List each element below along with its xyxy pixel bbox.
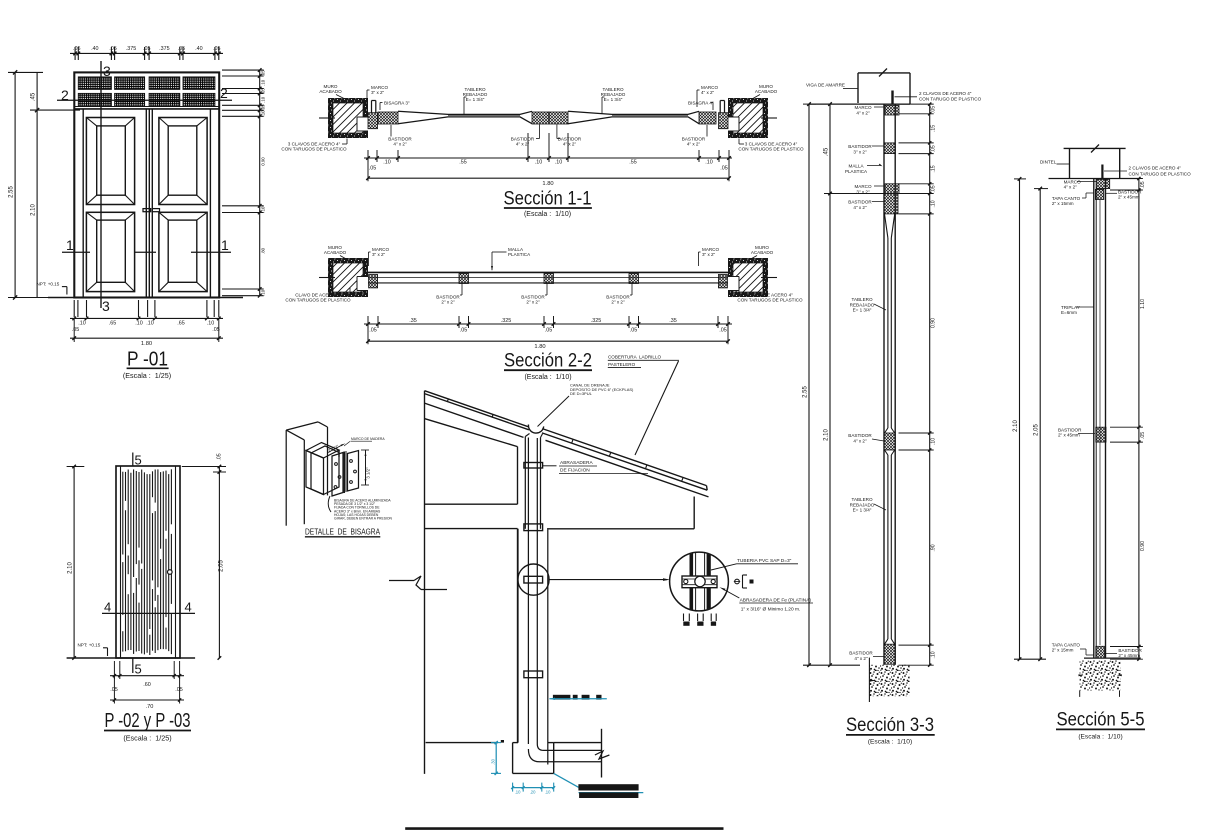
svg-text:.20: .20 [530,790,536,795]
svg-text:BASTIDOR: BASTIDOR [848,144,872,149]
svg-text:P -02 y P -03: P -02 y P -03 [105,710,191,732]
svg-text:3: 3 [103,63,111,79]
svg-text:PLASTICA: PLASTICA [845,169,868,174]
svg-text:.05: .05 [260,104,265,111]
svg-text:.45: .45 [31,92,37,101]
svg-text:.80: .80 [260,247,265,254]
svg-text:1.80: 1.80 [542,181,553,187]
svg-text:.05: .05 [369,166,376,172]
svg-text:.05: .05 [931,185,937,192]
svg-text:Sección 5-5: Sección 5-5 [1057,710,1145,731]
svg-text:(Escala : 1/25): (Escala : 1/25) [123,733,171,742]
svg-text:2" x 15mm: 2" x 15mm [1052,648,1074,653]
svg-text:Sección 2-2: Sección 2-2 [504,351,592,372]
svg-text:MARCO: MARCO [371,85,388,90]
svg-text:TABLERO: TABLERO [851,297,872,302]
svg-text:PASTELERO: PASTELERO [608,362,636,367]
svg-text:TUBERIA PVC SAP D=3": TUBERIA PVC SAP D=3" [737,558,792,564]
svg-text:MURO: MURO [324,84,338,89]
svg-text:5: 5 [135,662,142,677]
svg-text:NPT: +0.15: NPT: +0.15 [78,643,101,648]
svg-text:BASTIDOR: BASTIDOR [682,137,706,142]
svg-text:REBAJADO: REBAJADO [850,502,875,507]
svg-text:.30: .30 [491,758,496,764]
svg-text:TABLERO: TABLERO [464,87,485,92]
svg-text:MURO: MURO [328,245,342,250]
svg-text:CON TARUGOS DE PLASTICO: CON TARUGOS DE PLASTICO [285,298,351,303]
svg-text:3" x 2": 3" x 2" [853,149,867,154]
svg-text:.10: .10 [535,160,542,166]
svg-text:.10: .10 [931,651,937,658]
svg-text:E= 1 3/4": E= 1 3/4" [604,97,623,102]
svg-text:ABRASADERA: ABRASADERA [560,460,593,466]
svg-text:.05: .05 [73,46,80,52]
svg-text:BISAGRA 3": BISAGRA 3" [384,101,410,106]
svg-text:.10: .10 [545,790,551,795]
svg-text:4" x 2": 4" x 2" [853,438,867,443]
svg-text:.15: .15 [931,165,937,172]
svg-text:.10: .10 [260,96,265,103]
svg-text:.10: .10 [931,438,937,445]
svg-text:4" x 2": 4" x 2" [516,142,530,147]
svg-text:2 CLAVOS DE ACERO 4": 2 CLAVOS DE ACERO 4" [1129,166,1182,171]
svg-text:BASTIDOR: BASTIDOR [436,295,460,300]
svg-text:TRIPLAY: TRIPLAY [1061,305,1080,310]
svg-text:VIGA DE AMARRE: VIGA DE AMARRE [806,83,845,88]
svg-text:4" x 2": 4" x 2" [393,142,407,147]
svg-text:DETALLE DE BISAGRA: DETALLE DE BISAGRA [305,528,380,537]
svg-text:.15: .15 [931,125,937,132]
svg-text:.05: .05 [260,70,265,77]
svg-text:.10: .10 [260,110,265,117]
svg-text:MARCO DE MADERA: MARCO DE MADERA [351,437,385,441]
svg-text:MARCO: MARCO [854,184,871,189]
svg-text:MURO: MURO [755,245,769,250]
svg-text:.325: .325 [591,318,601,324]
svg-text:BASTIDOR: BASTIDOR [848,433,872,438]
svg-text:.05: .05 [460,328,467,334]
svg-text:(Escala : 1/25): (Escala : 1/25) [123,371,171,380]
svg-text:DE D=3PUL: DE D=3PUL [570,391,593,396]
svg-text:E=6mm: E=6mm [1061,310,1077,315]
svg-text:.45: .45 [824,147,830,156]
svg-text:BASTIDOR: BASTIDOR [1058,428,1082,433]
svg-text:.40: .40 [91,46,98,52]
svg-text:(Escala : 1/10): (Escala : 1/10) [524,374,571,381]
svg-text:.10: .10 [383,160,390,166]
svg-text:2.10: 2.10 [1013,420,1019,432]
svg-text:4: 4 [185,600,192,615]
svg-text:BASTIDOR: BASTIDOR [558,137,582,142]
svg-text:.10: .10 [515,790,521,795]
svg-text:.05: .05 [931,145,937,152]
svg-text:4" x 2": 4" x 2" [856,110,870,115]
svg-text:E= 1 3/4": E= 1 3/4" [853,308,872,313]
svg-text:BASTIDOR: BASTIDOR [388,137,412,142]
svg-text:3 CLAVOS DE ACERO 4": 3 CLAVOS DE ACERO 4" [745,142,798,147]
svg-text:MARCO: MARCO [702,247,719,252]
svg-text:2" x 45mm: 2" x 45mm [1058,433,1080,438]
svg-text:2" x 15mm: 2" x 15mm [1052,201,1074,206]
svg-text:.35: .35 [409,318,416,324]
svg-text:.05: .05 [260,88,265,95]
svg-text:PLASTICA: PLASTICA [508,252,531,257]
svg-text:E= 1 3/4": E= 1 3/4" [853,508,872,513]
svg-text:2" x 2": 2" x 2" [441,300,455,305]
svg-text:BASTIDOR: BASTIDOR [848,200,872,205]
svg-text:.05: .05 [1140,432,1146,439]
svg-text:BASTIDOR: BASTIDOR [521,295,545,300]
svg-text:TABLERO: TABLERO [602,87,623,92]
svg-text:DE FIJACION: DE FIJACION [560,468,590,474]
svg-text:MARCO: MARCO [1064,180,1081,185]
svg-text:TAPA CANTO: TAPA CANTO [1052,196,1081,201]
svg-text:2" x 2": 2" x 2" [611,300,625,305]
svg-text:5: 5 [135,453,142,468]
svg-text:2" x 45mm: 2" x 45mm [1118,195,1140,200]
svg-text:4" x 2": 4" x 2" [563,142,577,147]
svg-text:.10: .10 [260,79,265,86]
svg-text:.10: .10 [260,289,265,296]
svg-text:ABRASADERA DE Fe (PLATINA): ABRASADERA DE Fe (PLATINA) [740,597,812,603]
svg-text:MARCO: MARCO [854,105,871,110]
svg-text:.375: .375 [159,46,169,52]
svg-text:BASTIDOR: BASTIDOR [606,295,630,300]
svg-text:P -01: P -01 [127,348,168,370]
svg-text:(Escala : 1/10): (Escala : 1/10) [524,211,571,218]
svg-text:2.05: 2.05 [1034,424,1040,436]
svg-text:2.05: 2.05 [219,560,225,572]
svg-text:REBAJADO: REBAJADO [463,92,488,97]
svg-text:.60: .60 [143,682,150,688]
svg-text:ACABADO: ACABADO [324,250,347,255]
svg-text:Sección 1-1: Sección 1-1 [504,188,592,209]
svg-text:.05: .05 [109,46,116,52]
svg-text:.05: .05 [72,327,79,333]
svg-text:2.10: 2.10 [68,562,74,574]
svg-text:0.90: 0.90 [260,157,265,166]
svg-text:0.90: 0.90 [931,318,937,328]
svg-text:3 1/2": 3 1/2" [366,467,371,479]
svg-text:.10: .10 [135,321,142,327]
svg-text:BISAGRA 4": BISAGRA 4" [688,101,714,106]
svg-text:.10: .10 [705,160,712,166]
svg-text:3" x 2": 3" x 2" [371,90,385,95]
svg-text:1: 1 [66,237,74,253]
svg-text:2 CLAVOS DE ACERO 4": 2 CLAVOS DE ACERO 4" [919,91,972,96]
svg-text:BASTIDOR: BASTIDOR [849,651,873,656]
svg-text:TABLERO: TABLERO [851,497,872,502]
svg-text:1.80: 1.80 [534,344,545,350]
svg-text:2: 2 [61,87,69,103]
svg-text:.05: .05 [175,687,182,693]
svg-text:3: 3 [102,298,110,314]
svg-text:(Escala : 1/10): (Escala : 1/10) [1078,734,1122,741]
svg-text:1" x 3/16" Ø Minimo 1.20 m.: 1" x 3/16" Ø Minimo 1.20 m. [741,606,800,612]
svg-text:2" x 2": 2" x 2" [526,300,540,305]
svg-text:2.55: 2.55 [9,186,15,198]
svg-text:.05: .05 [931,106,937,113]
svg-text:.05: .05 [720,166,727,172]
svg-text:.05: .05 [143,46,150,52]
svg-text:MURO: MURO [759,84,773,89]
svg-text:4" x 2": 4" x 2" [853,205,867,210]
svg-text:.10: .10 [260,206,265,213]
svg-text:CON TARUGOS DE PLASTICO: CON TARUGOS DE PLASTICO [738,147,804,152]
svg-text:COBERTURA LADRILLO: COBERTURA LADRILLO [608,355,662,360]
svg-text:REBAJADO: REBAJADO [601,92,626,97]
svg-text:.55: .55 [629,160,636,166]
svg-text:.325: .325 [501,318,511,324]
svg-text:.10: .10 [207,321,214,327]
svg-text:ACABADO: ACABADO [755,89,778,94]
svg-text:3 CLAVOS DE ACERO 4": 3 CLAVOS DE ACERO 4" [288,142,341,147]
svg-text:CON TARUGOS DE PLASTICO: CON TARUGOS DE PLASTICO [281,147,347,152]
svg-text:(Escala : 1/10): (Escala : 1/10) [868,739,912,746]
svg-text:BASTIDOR: BASTIDOR [511,137,535,142]
svg-text:3" x 2": 3" x 2" [372,252,386,257]
svg-text:4" x 2": 4" x 2" [1064,185,1078,190]
svg-text:NPT: +0.15: NPT: +0.15 [37,282,60,287]
svg-text:.05: .05 [213,46,220,52]
svg-text:.375: .375 [126,46,136,52]
svg-text:.05: .05 [630,328,637,334]
svg-text:CON TARUGOS DE PLASTICO: CON TARUGOS DE PLASTICO [737,298,803,303]
svg-text:.40: .40 [195,46,202,52]
svg-text:ACABADO: ACABADO [319,89,342,94]
svg-text:.05: .05 [719,328,726,334]
svg-text:.10: .10 [146,321,153,327]
svg-text:0.90: 0.90 [1140,541,1146,551]
svg-text:4" x 2": 4" x 2" [687,142,701,147]
svg-text:2" x 45mm: 2" x 45mm [1118,653,1140,658]
svg-text:2.10: 2.10 [824,429,830,441]
svg-text:.55: .55 [459,160,466,166]
svg-text:.65: .65 [109,321,116,327]
svg-text:.05: .05 [545,328,552,334]
svg-text:CLAVO DE ACERO 4": CLAVO DE ACERO 4" [295,293,341,298]
svg-text:2.10: 2.10 [31,204,37,216]
svg-text:.10: .10 [931,200,937,207]
svg-text:.05: .05 [369,328,376,334]
svg-text:.05: .05 [217,453,223,460]
svg-text:MARCO: MARCO [701,85,718,90]
svg-text:4: 4 [104,600,111,615]
svg-text:.10: .10 [78,321,85,327]
svg-text:CON TARUGO DE PLASTICO: CON TARUGO DE PLASTICO [919,97,982,102]
svg-text:.35: .35 [669,318,676,324]
svg-text:4" x 2": 4" x 2" [854,656,868,661]
svg-text:E= 1 3/4": E= 1 3/4" [466,97,485,102]
svg-text:.65: .65 [177,321,184,327]
svg-text:2.55: 2.55 [803,386,809,398]
svg-text:CON TARUGO DE PLASTICO: CON TARUGO DE PLASTICO [1129,172,1192,177]
svg-text:3" x 2": 3" x 2" [702,252,716,257]
svg-text:1.80: 1.80 [141,341,152,347]
svg-text:.10: .10 [555,160,562,166]
svg-text:.05: .05 [1140,181,1146,188]
svg-text:MARCO: MARCO [372,247,389,252]
svg-text:.05: .05 [178,46,185,52]
svg-text:ACABADO: ACABADO [751,250,774,255]
svg-text:CLAVO DE ACERO 4": CLAVO DE ACERO 4" [747,293,793,298]
svg-text:TAPA CANTO: TAPA CANTO [1052,643,1081,648]
svg-text:REBAJADO: REBAJADO [850,302,875,307]
svg-text:1.10: 1.10 [1140,299,1146,309]
svg-text:Sección 3-3: Sección 3-3 [846,715,934,736]
svg-text:MALLA: MALLA [508,247,524,252]
svg-text:1: 1 [221,237,229,253]
svg-text:MALLA: MALLA [848,164,864,169]
svg-text:.90: .90 [931,544,937,551]
svg-text:4" x 2": 4" x 2" [701,90,715,95]
svg-text:GIRAR, DEBEN ENTRAR A PRESION: GIRAR, DEBEN ENTRAR A PRESION [334,517,393,521]
svg-text:DINTEL: DINTEL [1040,160,1057,165]
